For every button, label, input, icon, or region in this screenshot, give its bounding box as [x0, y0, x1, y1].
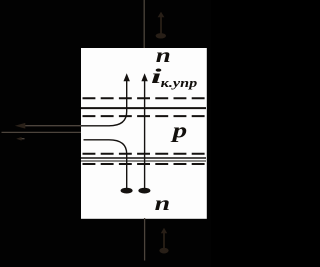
svg-text:p: p — [170, 117, 187, 142]
svg-text:к.упр: к.упр — [161, 76, 198, 90]
svg-text:n: n — [155, 193, 171, 215]
